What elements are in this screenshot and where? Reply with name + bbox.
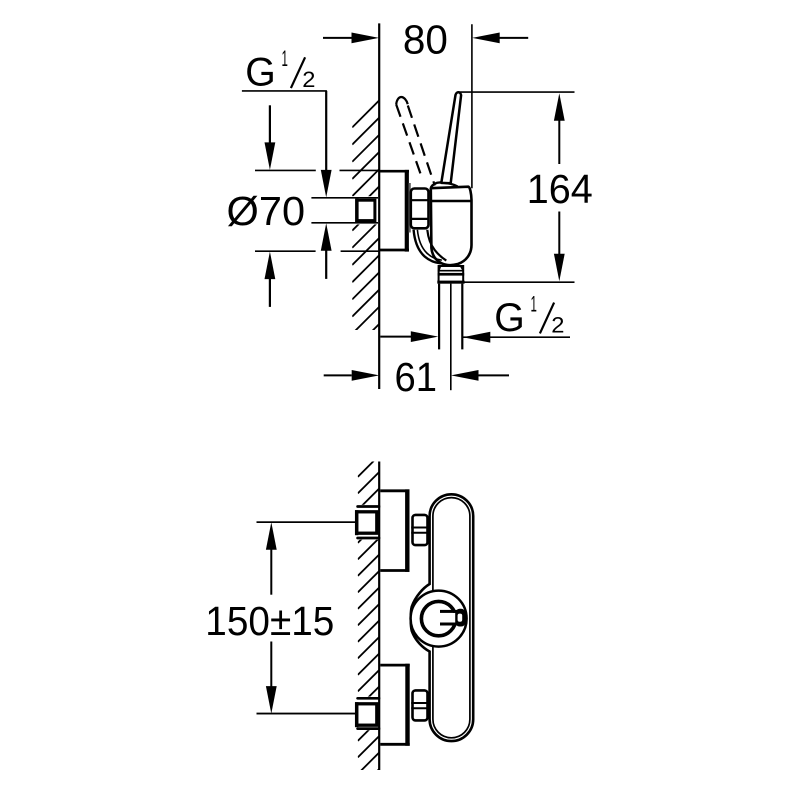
svg-text:1: 1 [282,46,288,71]
svg-text:61: 61 [395,354,438,400]
svg-text:G: G [245,51,275,95]
svg-text:80: 80 [403,16,448,62]
svg-text:1: 1 [531,291,537,316]
svg-text:Ø70: Ø70 [227,188,306,234]
svg-text:G: G [494,296,525,340]
svg-text:2: 2 [551,312,564,337]
svg-text:164: 164 [527,166,593,212]
svg-text:150±15: 150±15 [205,598,334,644]
svg-text:2: 2 [302,67,315,92]
